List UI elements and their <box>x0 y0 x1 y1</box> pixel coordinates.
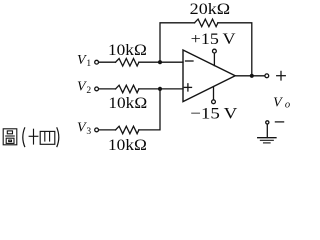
wire R1 to op-amp inverting input <box>139 61 183 63</box>
ground bar 3 <box>264 142 271 144</box>
svg-text:20kΩ: 20kΩ <box>190 1 231 18</box>
wire V2 terminal to R2 <box>99 88 115 90</box>
terminal V1 <box>95 60 99 64</box>
terminal V3 <box>95 128 99 132</box>
node junction row1/feedback <box>158 60 162 64</box>
supply pin -15V <box>213 87 215 100</box>
terminal Vo <box>265 74 269 78</box>
ground bar 1 <box>258 137 276 139</box>
ground stem <box>266 125 268 138</box>
svg-text:1: 1 <box>86 59 91 69</box>
caption: CJK glyph si (four) <box>40 131 55 144</box>
plus polarity mark at output <box>277 75 286 77</box>
node junction row2/V3 <box>158 87 162 91</box>
resistor R4 20k feedback <box>195 19 218 27</box>
minus polarity mark <box>275 121 283 123</box>
svg-text:2: 2 <box>86 86 91 96</box>
wire R2 to op-amp non-inverting input <box>139 88 183 90</box>
resistor R1 10k (V1 row) <box>116 59 139 67</box>
op-amp non-inverting sign <box>184 86 191 88</box>
svg-text:10kΩ: 10kΩ <box>108 42 147 59</box>
caption: CJK glyph shi (ten) <box>29 129 39 145</box>
op-amp U1 triangle <box>183 50 235 102</box>
wire R3 to junction (right then up) <box>139 89 160 130</box>
wire 20k to output node <box>218 23 252 76</box>
terminal V2 <box>95 87 99 91</box>
caption: close paren <box>57 127 59 147</box>
ground terminal circle <box>266 121 269 124</box>
wire op-amp output <box>235 75 264 77</box>
wire V1 terminal to R1 <box>99 61 115 63</box>
svg-text:o: o <box>285 100 290 111</box>
svg-text:+15 V: +15 V <box>191 31 236 48</box>
supply pin +15V <box>213 54 215 66</box>
ground bar 2 <box>260 139 273 141</box>
svg-text:V: V <box>273 95 283 110</box>
svg-text:10kΩ: 10kΩ <box>108 95 147 112</box>
svg-text:−15 V: −15 V <box>190 105 238 122</box>
caption: open paren <box>23 127 25 147</box>
caption: CJK glyph tu (figure) <box>3 129 17 145</box>
resistor R3 10k (V3 row) <box>116 126 139 134</box>
wire feedback: node to 20k <box>160 23 195 62</box>
svg-text:10kΩ: 10kΩ <box>108 137 147 153</box>
resistor R2 10k (V2 row) <box>116 85 139 93</box>
wire V3 terminal to R3 <box>99 129 115 131</box>
svg-text:3: 3 <box>86 127 91 137</box>
node output junction <box>250 74 254 78</box>
op-amp inverting sign <box>186 60 194 62</box>
